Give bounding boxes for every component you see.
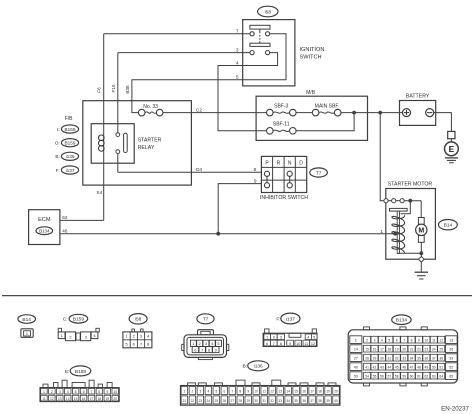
svg-text:BATTERY: BATTERY [406, 94, 430, 100]
svg-text:i137: i137 [66, 168, 75, 173]
svg-text:3: 3 [59, 390, 61, 394]
wire F10 vertical to relay contact [117, 53, 119, 135]
svg-text:i58: i58 [135, 317, 142, 323]
fuse SBF-11 [267, 128, 297, 135]
battery positive terminal [403, 109, 411, 117]
svg-text:9: 9 [289, 342, 291, 346]
junction terminal 1 / coil [393, 232, 397, 236]
svg-text:10: 10 [425, 338, 429, 342]
svg-text:1: 1 [355, 338, 357, 342]
svg-text:22: 22 [191, 399, 195, 403]
junction starter B+ node [408, 199, 412, 203]
svg-text:B134: B134 [39, 229, 50, 234]
relay contact bar [124, 133, 128, 152]
svg-text:3: 3 [236, 47, 239, 53]
svg-text:57: 57 [387, 374, 391, 378]
svg-text:5: 5 [215, 390, 217, 394]
wire coil bottom to motor ground node [398, 252, 421, 254]
svg-text:2: 2 [366, 338, 368, 342]
starter terminal circle on edge [384, 199, 388, 203]
svg-text:27: 27 [230, 399, 234, 403]
svg-text:47: 47 [410, 365, 414, 369]
svg-text:5: 5 [75, 390, 77, 394]
svg-text:35: 35 [417, 356, 421, 360]
solenoid plunger stem [397, 211, 399, 253]
wire O4 to inhibitor switch pin 8 [118, 171, 262, 173]
bar1 stem [259, 29, 261, 32]
svg-text:B14: B14 [444, 223, 453, 229]
ground terminal block [448, 131, 455, 138]
svg-text:55: 55 [373, 374, 377, 378]
solenoid pull-in coil (spring) [392, 215, 405, 253]
svg-text:EN-20237: EN-20237 [441, 405, 469, 412]
svg-text:26: 26 [223, 399, 227, 403]
relay coil loops [99, 135, 105, 141]
M/B main fuse box [256, 96, 367, 140]
svg-text:B158: B158 [75, 369, 87, 375]
svg-text:7: 7 [273, 342, 275, 346]
inhibitor N contact link [289, 176, 291, 182]
svg-text:14: 14 [66, 397, 70, 401]
svg-text:40: 40 [334, 399, 338, 403]
connector view B14 oval [18, 315, 36, 324]
wire B+ to pull-in coil top [401, 201, 411, 214]
starter magnetic switch contact left [392, 199, 396, 203]
svg-text:41: 41 [365, 365, 369, 369]
motor brush bottom [418, 236, 424, 243]
svg-text:28: 28 [238, 399, 242, 403]
svg-text:45: 45 [395, 365, 399, 369]
T7 pin cells row 2 [192, 347, 198, 353]
svg-text:32: 32 [270, 399, 274, 403]
connector view i137 body [265, 329, 269, 333]
svg-text:52: 52 [449, 365, 453, 369]
svg-text:33: 33 [278, 399, 282, 403]
svg-text:25: 25 [439, 347, 443, 351]
svg-text:15: 15 [365, 347, 369, 351]
svg-text:STARTER MOTOR: STARTER MOTOR [388, 182, 433, 188]
svg-text:i136: i136 [254, 364, 263, 370]
svg-text:M/B: M/B [306, 90, 316, 96]
svg-text:23: 23 [199, 399, 203, 403]
svg-text:INHIBITOR SWITCH: INHIBITOR SWITCH [260, 195, 308, 201]
svg-text:E: E [449, 144, 455, 154]
svg-text:6: 6 [396, 338, 398, 342]
connector view B159 oval [69, 314, 88, 323]
svg-text:4: 4 [67, 390, 69, 394]
svg-text:65: 65 [449, 374, 453, 378]
connector view i136 oval [248, 361, 269, 371]
svg-text:20: 20 [334, 390, 338, 394]
starter magnetic switch contact right [400, 199, 404, 203]
svg-text:SBF-11: SBF-11 [273, 122, 290, 128]
connector oval T7 [310, 168, 328, 177]
connector oval i137 (F) [61, 166, 78, 174]
svg-text:8: 8 [411, 338, 413, 342]
svg-text:12: 12 [311, 342, 315, 346]
relay contact terminal bottom [116, 150, 120, 154]
svg-text:F6: F6 [97, 87, 102, 93]
svg-text:20: 20 [113, 397, 117, 401]
ignition switch moving contact bar 2 [250, 43, 270, 46]
svg-text:7: 7 [236, 29, 239, 35]
svg-text:25: 25 [215, 399, 219, 403]
wire ignition pin3 to F10 (horizontal) [118, 52, 250, 54]
ignition contact row2 left (pin 3) [250, 51, 254, 55]
wire to motor brush [420, 201, 422, 218]
svg-text:RELAY: RELAY [138, 145, 155, 151]
battery box [400, 101, 436, 126]
svg-text:17: 17 [380, 347, 384, 351]
svg-text:13: 13 [278, 390, 282, 394]
svg-text:D: D [299, 160, 303, 166]
wire ignition pin4 down to SBF-11 [218, 53, 278, 131]
svg-text:50: 50 [432, 365, 436, 369]
svg-text:1: 1 [43, 390, 45, 394]
wire battery negative to ground E [434, 113, 452, 132]
svg-text:B134: B134 [396, 318, 408, 324]
ignition contact row2 right [266, 51, 270, 55]
svg-text:64: 64 [439, 374, 443, 378]
svg-text:53: 53 [354, 374, 358, 378]
T7 bottom tab [198, 357, 212, 359]
wire ground terminal to ground circle [450, 139, 452, 142]
svg-text:ECM: ECM [38, 217, 51, 223]
svg-text:16: 16 [302, 390, 306, 394]
svg-text:9: 9 [247, 390, 249, 394]
wire F6 / relay coil vertical down to ECM level [103, 34, 105, 221]
svg-text:8: 8 [254, 167, 257, 173]
motor M circle [416, 224, 427, 235]
svg-text:11: 11 [432, 338, 436, 342]
svg-text:4: 4 [381, 338, 383, 342]
junction battery rail / starter branch [378, 111, 382, 115]
svg-text:17: 17 [310, 390, 314, 394]
svg-text:4: 4 [236, 60, 239, 66]
svg-text:4: 4 [207, 390, 209, 394]
svg-text:63: 63 [432, 374, 436, 378]
svg-text:1: 1 [380, 229, 383, 235]
svg-text:19: 19 [395, 347, 399, 351]
svg-text:29: 29 [373, 356, 377, 360]
connector oval B14 [439, 220, 458, 230]
svg-text:34: 34 [410, 356, 414, 360]
solenoid plunger bar [390, 208, 408, 211]
svg-text:13: 13 [449, 338, 453, 342]
connector oval B134 in ECM [36, 227, 53, 235]
svg-text:16: 16 [82, 397, 86, 401]
svg-text:T7: T7 [316, 170, 322, 176]
svg-text:SBF-3: SBF-3 [274, 104, 288, 110]
fuse MAIN SBF [312, 109, 341, 116]
svg-text:2: 2 [273, 336, 275, 340]
svg-text:49: 49 [425, 365, 429, 369]
ignition switch moving contact bar 1 [250, 25, 270, 29]
svg-text:6: 6 [266, 342, 268, 346]
svg-text:10: 10 [254, 390, 258, 394]
svg-text:10: 10 [296, 342, 300, 346]
svg-text:24: 24 [432, 347, 436, 351]
svg-text:21: 21 [410, 347, 414, 351]
connector view B158 oval [70, 366, 91, 376]
svg-text:S4: S4 [96, 190, 102, 196]
svg-text:19: 19 [326, 390, 330, 394]
svg-text:B159: B159 [65, 141, 76, 146]
connector view B158 body [43, 384, 48, 388]
svg-text:O4: O4 [196, 167, 203, 173]
connector view i136 body [188, 383, 196, 386]
svg-text:F:: F: [276, 316, 280, 322]
wire SBF-11 up to main rail [296, 113, 354, 131]
T7 pin cells row 1 [190, 340, 196, 346]
svg-text:56: 56 [380, 374, 384, 378]
svg-text:37: 37 [432, 356, 436, 360]
svg-text:18: 18 [98, 397, 102, 401]
svg-text:9: 9 [254, 178, 257, 184]
svg-text:i137: i137 [286, 316, 295, 322]
starter ground pin (diamond) [418, 256, 424, 262]
ignition switch box [243, 20, 295, 86]
inhibitor P contact link [266, 176, 268, 182]
connector oval i136 (B) [61, 152, 78, 160]
starter B terminal wires [388, 200, 392, 202]
junction motor / coil ground node [419, 251, 423, 255]
wire MAIN SBF to battery positive [341, 112, 403, 114]
svg-text:38: 38 [318, 399, 322, 403]
inhibitor contact N top [287, 171, 292, 176]
svg-text:T7: T7 [203, 317, 209, 323]
svg-text:54: 54 [365, 374, 369, 378]
svg-text:59: 59 [402, 374, 406, 378]
svg-text:29: 29 [246, 399, 250, 403]
F/B fuse box [83, 101, 192, 185]
bar2 stem [259, 41, 261, 43]
svg-text:11: 11 [263, 390, 267, 394]
battery negative terminal [426, 109, 434, 117]
svg-text:3: 3 [199, 390, 201, 394]
svg-text:12: 12 [50, 397, 54, 401]
chassis ground symbol [415, 271, 428, 273]
svg-text:2: 2 [51, 390, 53, 394]
svg-text:MAIN SBF: MAIN SBF [315, 104, 339, 110]
inhibitor contact N bottom [287, 183, 292, 188]
starter motor box [386, 189, 436, 260]
svg-text:37: 37 [310, 399, 314, 403]
svg-text:21: 21 [183, 399, 187, 403]
svg-text:14: 14 [354, 347, 358, 351]
svg-text:7: 7 [231, 390, 233, 394]
svg-text:1: 1 [183, 390, 185, 394]
connector view T7 oval [197, 314, 214, 324]
svg-text:18: 18 [387, 347, 391, 351]
svg-text:12: 12 [270, 390, 274, 394]
svg-text:7: 7 [91, 390, 93, 394]
svg-text:9: 9 [106, 390, 108, 394]
wire fuse No.33 to SBF-3 (C2) [163, 112, 267, 114]
svg-text:51: 51 [439, 365, 443, 369]
svg-text:13: 13 [58, 397, 62, 401]
connector oval B159 (I) [61, 125, 78, 133]
junction inhibitor pin9 branch [216, 232, 220, 236]
svg-text:42: 42 [373, 365, 377, 369]
svg-text:B159: B159 [73, 317, 85, 323]
svg-text:22: 22 [417, 347, 421, 351]
svg-text:27: 27 [354, 356, 358, 360]
svg-text:11: 11 [304, 342, 308, 346]
wire relay contact output vertical [117, 154, 119, 173]
svg-text:7: 7 [403, 338, 405, 342]
connector oval i58 (ignition switch) [258, 6, 278, 17]
svg-text:14: 14 [286, 390, 290, 394]
svg-text:39: 39 [326, 399, 330, 403]
svg-text:i58: i58 [265, 9, 272, 15]
inhibitor switch T7 box and grid [261, 156, 306, 192]
connector oval B159 (O) [61, 139, 78, 147]
connector view i58 body [132, 329, 135, 332]
svg-text:N: N [288, 160, 292, 166]
junction SBF-11 / main rail [352, 111, 356, 115]
svg-text:39: 39 [449, 356, 453, 360]
svg-text:SWITCH: SWITCH [300, 54, 322, 60]
relay contact terminal top [116, 133, 120, 137]
svg-text:4: 4 [307, 336, 309, 340]
svg-text:18: 18 [318, 390, 322, 394]
wire motor to ground pin [420, 242, 422, 256]
svg-text:35: 35 [294, 399, 298, 403]
svg-text:8: 8 [98, 390, 100, 394]
svg-text:12: 12 [439, 338, 443, 342]
wire ignition pin5 to B38 / fuse No.33 [132, 34, 286, 113]
ECM box [29, 210, 60, 245]
svg-text:IGNITION: IGNITION [300, 47, 325, 53]
svg-text:36: 36 [302, 399, 306, 403]
inhibitor contact P bottom [264, 183, 269, 188]
svg-text:C:: C: [63, 317, 68, 323]
svg-text:F/B: F/B [65, 116, 73, 122]
svg-text:33: 33 [402, 356, 406, 360]
svg-text:R: R [277, 160, 281, 166]
svg-text:43: 43 [380, 365, 384, 369]
svg-text:1: 1 [266, 336, 268, 340]
ignition switch mechanical link (dashed) [259, 32, 261, 41]
svg-text:15: 15 [74, 397, 78, 401]
svg-text:B159: B159 [65, 127, 76, 132]
svg-text:23: 23 [425, 347, 429, 351]
svg-text:C2: C2 [196, 107, 202, 113]
svg-text:6: 6 [223, 390, 225, 394]
svg-text:B38: B38 [125, 85, 130, 94]
fuse SBF-3 [267, 109, 297, 116]
svg-text:5: 5 [313, 336, 315, 340]
motor brush top [418, 218, 424, 225]
svg-text:36: 36 [425, 356, 429, 360]
svg-text:F:: F: [56, 168, 60, 173]
svg-text:16: 16 [373, 347, 377, 351]
svg-text:B14: B14 [22, 317, 31, 323]
svg-text:B:: B: [55, 154, 59, 159]
svg-text:5: 5 [236, 75, 239, 81]
svg-text:38: 38 [439, 356, 443, 360]
wire ignition pin7 to F6 (horizontal) [104, 33, 250, 35]
fuse No. 33 [138, 109, 163, 116]
connector view i58 oval [129, 314, 147, 324]
svg-text:O:: O: [55, 141, 60, 146]
svg-text:46: 46 [402, 365, 406, 369]
svg-text:46: 46 [62, 229, 68, 234]
svg-text:26: 26 [449, 347, 453, 351]
svg-text:34: 34 [286, 399, 290, 403]
svg-text:STARTER: STARTER [138, 137, 162, 143]
svg-text:20: 20 [402, 347, 406, 351]
svg-text:9: 9 [418, 338, 420, 342]
svg-text:B:: B: [242, 364, 247, 370]
inhibitor contact P top [264, 171, 269, 176]
svg-text:48: 48 [417, 365, 421, 369]
svg-text:No. 33: No. 33 [143, 104, 158, 110]
svg-text:8: 8 [280, 342, 282, 346]
svg-text:F10: F10 [111, 84, 116, 92]
svg-text:32: 32 [395, 356, 399, 360]
svg-text:44: 44 [387, 365, 391, 369]
svg-text:31: 31 [387, 356, 391, 360]
wire to chassis ground [420, 262, 422, 272]
svg-text:60: 60 [410, 374, 414, 378]
svg-text:11: 11 [42, 397, 46, 401]
wire battery rail down to starter motor B terminal [380, 113, 384, 201]
starter relay box [91, 124, 134, 164]
svg-text:3: 3 [280, 336, 282, 340]
svg-text:62: 62 [62, 215, 68, 220]
svg-text:8: 8 [239, 390, 241, 394]
connector view i137 oval [281, 313, 300, 324]
svg-text:i136: i136 [66, 154, 75, 159]
svg-text:28: 28 [365, 356, 369, 360]
svg-text:58: 58 [395, 374, 399, 378]
ignition contact row1 left (pin 7) [250, 32, 254, 36]
svg-text:31: 31 [262, 399, 266, 403]
svg-text:40: 40 [354, 365, 358, 369]
wire SBF-3 to MAIN SBF [296, 112, 312, 114]
svg-text:2: 2 [191, 390, 193, 394]
connector view T7 body [198, 330, 214, 336]
svg-text:61: 61 [417, 374, 421, 378]
ground E lines [445, 157, 458, 159]
section divider line [2, 295, 472, 297]
ignition contact row1 right [266, 32, 270, 36]
svg-text:M: M [418, 228, 424, 235]
connector view B159 body [58, 328, 61, 332]
svg-text:30: 30 [380, 356, 384, 360]
ground point E circle [445, 142, 459, 156]
connector view B134 body [363, 327, 369, 330]
svg-text:I:: I: [57, 127, 60, 132]
wire to ECM pin 62 [60, 219, 104, 221]
connector view B14 body [21, 329, 33, 338]
svg-text:15: 15 [294, 390, 298, 394]
svg-text:5: 5 [388, 338, 390, 342]
svg-text:10: 10 [113, 390, 117, 394]
connector view B134 oval [392, 315, 411, 325]
svg-text:3: 3 [374, 338, 376, 342]
svg-text:24: 24 [207, 399, 211, 403]
svg-text:E:: E: [65, 369, 70, 375]
svg-text:17: 17 [90, 397, 94, 401]
svg-text:6: 6 [83, 390, 85, 394]
svg-text:62: 62 [425, 374, 429, 378]
wire ECM pin 46 / starter terminal 1 net [60, 233, 395, 235]
svg-text:30: 30 [254, 399, 258, 403]
svg-text:19: 19 [105, 397, 109, 401]
